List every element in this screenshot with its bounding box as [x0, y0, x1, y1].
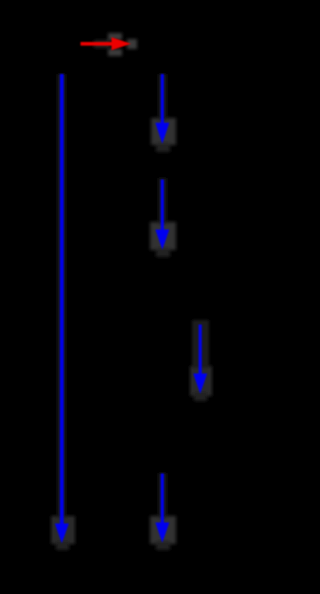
- artifact halo around blue arrowhead 3: [190, 320, 212, 401]
- artifact halo around blue arrowhead 4: [150, 473, 176, 550]
- artifact halo around blue arrowhead 1: [151, 74, 176, 152]
- left long blue edge arrow (pointing down): [55, 74, 69, 543]
- blue edge arrow 3 (pointing down): [193, 325, 207, 394]
- blue edge arrow 1 (pointing down): [155, 74, 169, 144]
- artifact halo around red arrowhead: [94, 33, 137, 56]
- artifact halo around left blue arrowhead: [51, 74, 75, 550]
- blue edge arrow 2 (pointing down): [155, 180, 169, 250]
- blue edge arrow 4 (pointing down): [155, 474, 169, 543]
- artifact halo around blue arrowhead 2: [150, 178, 176, 257]
- red edge arrow (top, pointing right): [81, 37, 132, 50]
